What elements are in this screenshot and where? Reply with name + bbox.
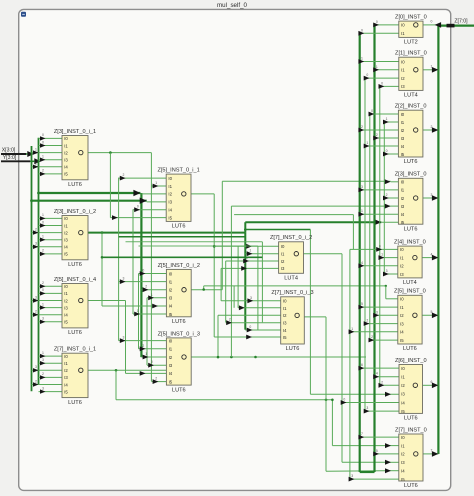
- wire Z[3]_INST_0_i_1 I5 tap from bus: [39, 169, 63, 176]
- wire Z[7]_INST_0_i_2 output net: [304, 254, 399, 465]
- svg-text:I3: I3: [401, 136, 405, 141]
- svg-text:LUT6: LUT6: [404, 416, 418, 422]
- wire trunk to Z[6]_INST_0 I0: [358, 363, 399, 370]
- wire trunk to Z[4]_INST_0 I0: [350, 244, 398, 251]
- svg-text:2: 2: [145, 285, 147, 289]
- svg-text:0: 0: [42, 140, 44, 144]
- svg-text:2: 2: [371, 335, 373, 339]
- svg-text:3: 3: [361, 185, 363, 189]
- svg-text:1: 1: [42, 302, 44, 306]
- svg-text:I1: I1: [400, 255, 404, 260]
- LUT Z[7]_INST_0_i_1 (LUT6): [54, 347, 96, 406]
- svg-text:I3: I3: [281, 266, 285, 271]
- svg-text:1: 1: [42, 213, 44, 217]
- svg-text:I3: I3: [283, 321, 287, 326]
- wire trunk to Z[6]_INST_0 I1: [373, 372, 399, 379]
- trunk x=369.8: [369, 114, 371, 340]
- svg-text:1: 1: [366, 141, 368, 145]
- wire trunk to Z[5]_INST_0_i_1 I0: [119, 173, 167, 180]
- trunk x=221.1: [220, 268, 222, 301]
- svg-text:I2: I2: [64, 230, 68, 235]
- svg-text:I4: I4: [64, 245, 68, 250]
- svg-text:2: 2: [122, 173, 124, 177]
- wire trunk to Z[7]_INST_0 I0: [358, 432, 398, 439]
- wire mesh net g: [139, 245, 258, 247]
- LUT Z[3]_INST_0 (LUT6): [395, 172, 427, 233]
- svg-text:1: 1: [145, 352, 147, 356]
- svg-text:2: 2: [42, 281, 44, 285]
- svg-text:I0: I0: [400, 247, 404, 252]
- svg-text:2: 2: [35, 227, 37, 231]
- wire mesh net e: [119, 236, 246, 238]
- wire trunk to Z[5]_INST_0_i_3 I2: [141, 352, 166, 359]
- thick net B (X bus to Z[5]_INST_0_i_1 I3): [30, 198, 166, 204]
- svg-text:I1: I1: [169, 279, 173, 284]
- svg-text:2: 2: [244, 263, 246, 267]
- LUT Z[5]_INST_0_i_2 (LUT6): [158, 263, 200, 325]
- svg-text:6: 6: [361, 363, 363, 367]
- svg-text:Z[5]_INST_0_i_1: Z[5]_INST_0_i_1: [157, 168, 199, 174]
- svg-text:LUT6: LUT6: [172, 319, 186, 325]
- wire trunk to Z[6]_INST_0 I2: [379, 380, 400, 387]
- svg-text:I4: I4: [168, 208, 172, 213]
- svg-text:1: 1: [386, 117, 388, 121]
- svg-text:3: 3: [250, 296, 252, 300]
- svg-text:I2: I2: [401, 196, 405, 201]
- svg-text:0: 0: [137, 205, 139, 209]
- wire trunk to Z[7]_INST_0 I2: [373, 449, 399, 456]
- wire Z[5]_INST_0_i_4 I0 tap from bus: [39, 281, 63, 288]
- wire trunk I1 feed Z[7]_INST_0_i_3: [238, 246, 281, 310]
- svg-text:1: 1: [381, 253, 383, 257]
- LUT Z[5]_INST_0_i_3 (LUT6): [158, 331, 200, 393]
- svg-text:2: 2: [366, 319, 368, 323]
- svg-text:3: 3: [35, 242, 37, 246]
- wire Z[5]_INST_0 output to Z bus bit 5: [422, 310, 438, 318]
- wire trunk to Z[3]_INST_0 I2: [383, 193, 398, 200]
- wire Z[1]_INST_0 output to Z bus bit 1: [423, 65, 438, 73]
- svg-text:Z[3]_INST_0: Z[3]_INST_0: [395, 172, 427, 178]
- wire trunk to Z[5]_INST_0_i_2 I3: [147, 293, 166, 300]
- svg-text:I4: I4: [283, 328, 287, 333]
- wire trunk to Z[2]_INST_0 I3: [373, 133, 398, 140]
- svg-text:I0: I0: [281, 244, 285, 249]
- svg-text:LUT4: LUT4: [403, 280, 417, 286]
- svg-text:I4: I4: [401, 400, 405, 405]
- svg-text:2: 2: [381, 380, 383, 384]
- LUT Z[7]_INST_0_i_3 (LUT6): [271, 290, 313, 352]
- wire trunk to Z[5]_INST_0 I1: [358, 302, 397, 309]
- svg-text:I5: I5: [401, 477, 405, 482]
- wire trunk to Z[4]_INST_0 I1: [379, 253, 398, 260]
- wire trunk to Z[2]_INST_0 I4: [364, 141, 399, 148]
- output port Z[7:0]: [438, 19, 474, 28]
- wire Z[3]_INST_0_i_2 I5 tap from bus: [39, 249, 63, 256]
- svg-text:7: 7: [361, 432, 363, 436]
- wire Z[7]_INST_0_i_1 I4 tap from bus: [32, 379, 63, 386]
- wire mesh net f: [126, 242, 263, 322]
- svg-text:I2: I2: [283, 313, 287, 318]
- wire trunk to Z[0]_INST_0 I0: [373, 20, 399, 27]
- wire Z[5]_INST_0_i_2 output net: [191, 179, 398, 289]
- trunk x=379.8: [379, 86, 381, 386]
- svg-text:3: 3: [42, 317, 44, 321]
- svg-text:I0: I0: [401, 23, 405, 28]
- svg-text:3: 3: [122, 277, 124, 281]
- svg-text:Z[5]_INST_0: Z[5]_INST_0: [394, 289, 426, 295]
- svg-text:I4: I4: [64, 382, 68, 387]
- svg-text:Z[3]_INST_0_i_1: Z[3]_INST_0_i_1: [54, 129, 96, 135]
- svg-text:3: 3: [42, 358, 44, 362]
- svg-text:I0: I0: [64, 216, 68, 221]
- svg-text:I3: I3: [401, 84, 405, 89]
- svg-text:LUT6: LUT6: [286, 346, 300, 352]
- wire Z[6]_INST_0 output to Z bus bit 6: [423, 380, 439, 388]
- svg-text:I0: I0: [64, 136, 68, 141]
- wire Z[5]_INST_0_i_4 I3 tap from bus: [39, 302, 63, 309]
- wire Z[5]_INST_0_i_4 output net: [88, 301, 166, 376]
- wire trunk to Z[3]_INST_0 I1: [358, 185, 398, 192]
- wire trunk to Z[5]_INST_0_i_2 I2: [141, 285, 166, 292]
- svg-text:4: 4: [376, 372, 378, 376]
- svg-text:3: 3: [431, 193, 433, 197]
- trunk x=365.0: [364, 78, 366, 411]
- svg-text:Z[5]_INST_0_i_2: Z[5]_INST_0_i_2: [158, 263, 200, 269]
- svg-text:I2: I2: [401, 76, 405, 81]
- wire trunk to Z[5]_INST_0 I4: [349, 327, 398, 334]
- trunk x=118.6: [118, 178, 120, 341]
- svg-text:0: 0: [386, 149, 388, 153]
- wire trunk to Z[5]_INST_0_i_1 I4: [133, 205, 166, 212]
- svg-text:I2: I2: [400, 264, 404, 269]
- collapse icon: [21, 12, 26, 17]
- svg-text:LUT6: LUT6: [172, 224, 186, 230]
- svg-text:I1: I1: [64, 361, 68, 366]
- svg-text:I5: I5: [169, 312, 173, 317]
- wire trunk to Z[5]_INST_0_i_3 I1: [139, 344, 167, 351]
- wire Z[3]_INST_0_i_2 I3 tap from bus: [39, 235, 63, 242]
- LUT Z[5]_INST_0 (LUT6): [394, 289, 426, 353]
- wire Z[7]_INST_0_i_1 I0 tap from bus: [39, 351, 63, 358]
- wire trunk to Z[5]_INST_0_i_1 I1: [151, 181, 166, 188]
- svg-text:I3: I3: [169, 296, 173, 301]
- svg-text:I1: I1: [64, 223, 68, 228]
- svg-text:Z[3]_INST_0_i_2: Z[3]_INST_0_i_2: [54, 209, 96, 215]
- wire Z[0]_INST_0 output to Z bus bit 0: [423, 20, 441, 28]
- svg-text:3: 3: [35, 295, 37, 299]
- svg-text:I0: I0: [283, 299, 287, 304]
- wire Z[7]_INST_0_i_1 I2 tap from bus: [32, 365, 63, 372]
- trunk x=349.9: [349, 249, 351, 479]
- svg-text:I2: I2: [401, 452, 405, 457]
- wire Z[5]_INST_0_i_3 output net: [191, 204, 398, 359]
- wire Z[3]_INST_0_i_2 I4 tap from bus: [32, 242, 63, 249]
- wire trunk to Z[5]_INST_0 I5: [369, 335, 398, 342]
- svg-text:0: 0: [142, 269, 144, 273]
- wire Z[7]_INST_0 output to Z bus bit 7: [423, 449, 438, 457]
- wire Z[7]_INST_0_i_1 I1 tap from bus: [39, 358, 63, 365]
- svg-text:I0: I0: [400, 297, 404, 302]
- wire Z[4]_INST_0 output to Z bus bit 4: [422, 252, 438, 260]
- svg-text:I1: I1: [64, 291, 68, 296]
- svg-text:I2: I2: [64, 368, 68, 373]
- wire Z[3]_INST_0_i_1 I1 tap from bus: [39, 140, 63, 147]
- svg-text:I4: I4: [169, 304, 173, 309]
- svg-text:0: 0: [343, 398, 345, 402]
- wire Z[3]_INST_0_i_2 I2 tap from bus: [32, 227, 63, 234]
- svg-text:1: 1: [42, 235, 44, 239]
- svg-text:1: 1: [361, 57, 363, 61]
- trunk x=374.5 (thick): [373, 25, 375, 472]
- svg-text:I0: I0: [169, 271, 173, 276]
- svg-text:0: 0: [381, 81, 383, 85]
- svg-text:I1: I1: [401, 120, 405, 125]
- svg-text:3: 3: [35, 365, 37, 369]
- svg-text:3: 3: [366, 406, 368, 410]
- svg-text:I1: I1: [401, 375, 405, 380]
- wire trunk to Z[5]_INST_0_i_1 I2: [141, 193, 166, 195]
- svg-text:0: 0: [371, 109, 373, 113]
- svg-text:I5: I5: [401, 220, 405, 225]
- svg-text:0: 0: [431, 20, 433, 24]
- svg-text:I0: I0: [401, 59, 405, 64]
- wire Z[3]_INST_0_i_2 output net (thick): [88, 219, 398, 234]
- svg-text:I3: I3: [64, 305, 68, 310]
- wire trunk to Z[7]_INST_0_i_3 I0: [221, 296, 281, 303]
- svg-text:1: 1: [42, 155, 44, 159]
- wire Z[3]_INST_0_i_1 I3 tap from bus: [39, 155, 63, 162]
- svg-text:I1: I1: [64, 143, 68, 148]
- LUT Z[2]_INST_0 (LUT6): [395, 104, 427, 166]
- svg-text:I2: I2: [400, 313, 404, 318]
- svg-text:2: 2: [229, 318, 231, 322]
- svg-text:LUT4: LUT4: [404, 93, 418, 99]
- wire Z[3]_INST_0_i_1 output net: [88, 151, 166, 220]
- svg-text:I3: I3: [169, 363, 173, 368]
- svg-text:I3: I3: [400, 272, 404, 277]
- svg-text:I5: I5: [64, 320, 68, 325]
- wire Z[3]_INST_0 output to Z bus bit 3: [423, 193, 439, 201]
- svg-text:I1: I1: [283, 306, 287, 311]
- LUT Z[3]_INST_0_i_1 (LUT6): [54, 129, 96, 188]
- svg-text:6: 6: [431, 380, 433, 384]
- svg-text:Y[3:0]: Y[3:0]: [3, 155, 17, 161]
- svg-text:2: 2: [142, 344, 144, 348]
- svg-text:1: 1: [376, 65, 378, 69]
- wire Z[7]_INST_0_i_1 I3 tap from bus: [39, 372, 63, 379]
- wire trunk to Z[5]_INST_0_i_3 I5: [151, 377, 166, 384]
- wire trunk to Z[1]_INST_0 I3: [379, 81, 399, 88]
- svg-text:I5: I5: [168, 215, 172, 220]
- LUT Z[3]_INST_0_i_2 (LUT6): [54, 209, 96, 268]
- svg-text:I3: I3: [64, 238, 68, 243]
- LUT Z[5]_INST_0_i_4 (LUT6): [54, 277, 96, 336]
- svg-text:I4: I4: [400, 330, 404, 335]
- wire trunk to Z[5]_INST_0_i_2 I1: [119, 277, 167, 284]
- trunk x=234.1: [233, 286, 235, 308]
- svg-text:I1: I1: [401, 68, 405, 73]
- svg-text:2: 2: [431, 125, 433, 129]
- svg-text:0: 0: [249, 325, 251, 329]
- svg-text:Z[7]_INST_0: Z[7]_INST_0: [395, 427, 427, 433]
- svg-text:LUT6: LUT6: [68, 182, 82, 188]
- svg-text:3: 3: [351, 474, 353, 478]
- svg-text:I2: I2: [281, 259, 285, 264]
- input port X[3:0]: [1, 147, 34, 157]
- thick trunk x=245.3 down: [244, 233, 246, 330]
- svg-text:I3: I3: [168, 200, 172, 205]
- wire trunk to Z[7]_INST_0 I5: [349, 474, 399, 481]
- svg-text:Z[0]_INST_0: Z[0]_INST_0: [395, 15, 427, 21]
- svg-text:I0: I0: [401, 366, 405, 371]
- wire trunk to Z[7]_INST_0_i_3 I3: [226, 318, 281, 325]
- wire mesh thick net y=257.3: [101, 256, 263, 259]
- wire trunk to Z[6]_INST_0 I4: [341, 398, 399, 405]
- svg-text:Z[7]_INST_0_i_3: Z[7]_INST_0_i_3: [271, 290, 313, 296]
- wire Z[5]_INST_0_i_4 I2 tap from bus: [32, 295, 63, 302]
- svg-text:I4: I4: [401, 144, 405, 149]
- svg-text:4: 4: [361, 261, 363, 265]
- svg-text:I0: I0: [64, 354, 68, 359]
- svg-text:I2: I2: [64, 298, 68, 303]
- wire trunk to Z[2]_INST_0 I5: [383, 149, 398, 156]
- svg-text:0: 0: [366, 73, 368, 77]
- svg-text:4: 4: [431, 252, 433, 256]
- X bus vertical net: [31, 146, 33, 391]
- svg-text:I2: I2: [169, 288, 173, 293]
- svg-text:LUT6: LUT6: [403, 346, 417, 352]
- wire Z[5]_INST_0_i_4 I4 tap from bus: [32, 310, 63, 317]
- svg-text:X[3:0]: X[3:0]: [2, 147, 16, 153]
- svg-text:5: 5: [431, 310, 433, 314]
- svg-text:2: 2: [386, 193, 388, 197]
- wire trunk to Z[0]_INST_0 I1: [358, 28, 398, 35]
- svg-text:3: 3: [386, 269, 388, 273]
- wire mesh net c: [202, 285, 397, 299]
- svg-text:I3: I3: [400, 321, 404, 326]
- wire trunk to Z[1]_INST_0 I1: [373, 65, 399, 72]
- svg-text:I1: I1: [281, 252, 285, 257]
- wire trunk to Z[7]_INST_0_i_2 I3: [221, 263, 279, 270]
- LUT Z[1]_INST_0 (LUT4): [395, 51, 427, 99]
- wire Z[7]_INST_0_i_3 output net: [304, 317, 399, 473]
- wire branch Z[3]_INST_0_i_2 to Z[5]_INST_0_i_2 I4: [102, 233, 166, 309]
- svg-text:0: 0: [376, 20, 378, 24]
- LUT Z[5]_INST_0_i_1 (LUT6): [157, 168, 199, 230]
- wire trunk to Z[5]_INST_0_i_2 I5: [133, 309, 166, 316]
- trunk x=384.3: [383, 122, 385, 274]
- svg-text:1: 1: [151, 293, 153, 297]
- wire trunk to Z[4]_INST_0 I3: [383, 269, 398, 276]
- svg-text:0: 0: [42, 220, 44, 224]
- svg-text:I5: I5: [400, 338, 404, 343]
- trunk x=147.0: [146, 298, 148, 365]
- Y bus vertical net: [38, 138, 40, 384]
- wire Z[2]_INST_0 output to Z bus bit 2: [423, 125, 439, 133]
- svg-text:I4: I4: [64, 165, 68, 170]
- trunk x=138.5: [138, 274, 140, 349]
- svg-text:I4: I4: [401, 469, 405, 474]
- wire trunk to Z[7]_INST_0_i_3 I4: [245, 325, 280, 332]
- wire Z[3]_INST_0_i_2 I0 tap from bus: [39, 213, 63, 220]
- svg-text:I2: I2: [64, 150, 68, 155]
- svg-text:I0: I0: [168, 176, 172, 181]
- svg-text:I0: I0: [401, 180, 405, 185]
- svg-text:I5: I5: [401, 152, 405, 157]
- svg-text:LUT6: LUT6: [68, 262, 82, 268]
- svg-text:I0: I0: [169, 338, 173, 343]
- svg-text:Z[2]_INST_0: Z[2]_INST_0: [395, 104, 427, 110]
- svg-text:I1: I1: [401, 188, 405, 193]
- svg-text:I5: I5: [169, 379, 173, 384]
- wire trunk to Z[5]_INST_0 I2: [373, 310, 398, 317]
- svg-text:LUT6: LUT6: [68, 400, 82, 406]
- wire mesh net d: [234, 215, 353, 250]
- svg-text:I2: I2: [168, 192, 172, 197]
- svg-text:I3: I3: [64, 158, 68, 163]
- svg-text:3: 3: [376, 310, 378, 314]
- svg-text:LUT4: LUT4: [284, 276, 298, 282]
- svg-text:I5: I5: [64, 389, 68, 394]
- trunk x=151.4: [150, 153, 152, 382]
- svg-text:LUT6: LUT6: [172, 387, 186, 393]
- svg-text:I4: I4: [64, 313, 68, 318]
- svg-text:I3: I3: [401, 460, 405, 465]
- svg-text:I5: I5: [64, 172, 68, 177]
- wire trunk to Z[5]_INST_0_i_3 I3: [147, 360, 166, 367]
- thick trunk vertical x=141.4: [140, 193, 142, 357]
- Z bus vertical net: [437, 26, 439, 454]
- svg-text:0: 0: [151, 360, 153, 364]
- svg-text:LUT6: LUT6: [404, 483, 418, 489]
- svg-text:I2: I2: [169, 355, 173, 360]
- svg-text:2: 2: [42, 372, 44, 376]
- svg-text:2: 2: [155, 377, 157, 381]
- svg-text:2: 2: [35, 310, 37, 314]
- svg-text:2: 2: [35, 162, 37, 166]
- svg-text:LUT2: LUT2: [404, 40, 418, 46]
- LUT Z[4]_INST_0 (LUT4): [394, 240, 426, 287]
- wire trunk to Z[6]_INST_0 I5: [364, 406, 399, 413]
- svg-text:Z[6]_INST_0: Z[6]_INST_0: [395, 358, 427, 364]
- wire trunk to Z[4]_INST_0 I2: [358, 261, 397, 268]
- svg-text:I4: I4: [401, 212, 405, 217]
- svg-text:0: 0: [361, 28, 363, 32]
- wire trunk to Z[1]_INST_0 I0: [358, 57, 398, 64]
- svg-text:1: 1: [361, 209, 363, 213]
- svg-text:LUT6: LUT6: [404, 159, 418, 165]
- wire net to Z[6]_INST_0 I3 via x=310.4: [244, 228, 399, 397]
- svg-text:Z[7]_INST_0_i_1: Z[7]_INST_0_i_1: [54, 347, 96, 353]
- svg-text:2: 2: [42, 249, 44, 253]
- wire Z[5]_INST_0_i_1 output net: [191, 194, 281, 340]
- svg-text:1: 1: [35, 147, 37, 151]
- wire Z[3]_INST_0_i_2 I1 tap from bus: [39, 220, 63, 227]
- svg-text:1: 1: [137, 309, 139, 313]
- svg-text:7: 7: [431, 449, 433, 453]
- LUT Z[6]_INST_0 (LUT6): [395, 358, 427, 422]
- svg-text:I1: I1: [168, 184, 172, 189]
- wire Z[3]_INST_0_i_1 I2 tap from bus: [32, 147, 63, 154]
- svg-text:Z[4]_INST_0: Z[4]_INST_0: [394, 240, 426, 246]
- svg-text:5: 5: [376, 449, 378, 453]
- wire trunk to Z[2]_INST_0 I0: [369, 109, 399, 116]
- svg-text:2: 2: [42, 169, 44, 173]
- svg-text:0: 0: [379, 244, 381, 248]
- trunk x=225.7: [225, 261, 227, 322]
- svg-text:Z[7]_INST_0_i_2: Z[7]_INST_0_i_2: [270, 235, 312, 241]
- LUT Z[0]_INST_0 (LUT2): [395, 15, 427, 46]
